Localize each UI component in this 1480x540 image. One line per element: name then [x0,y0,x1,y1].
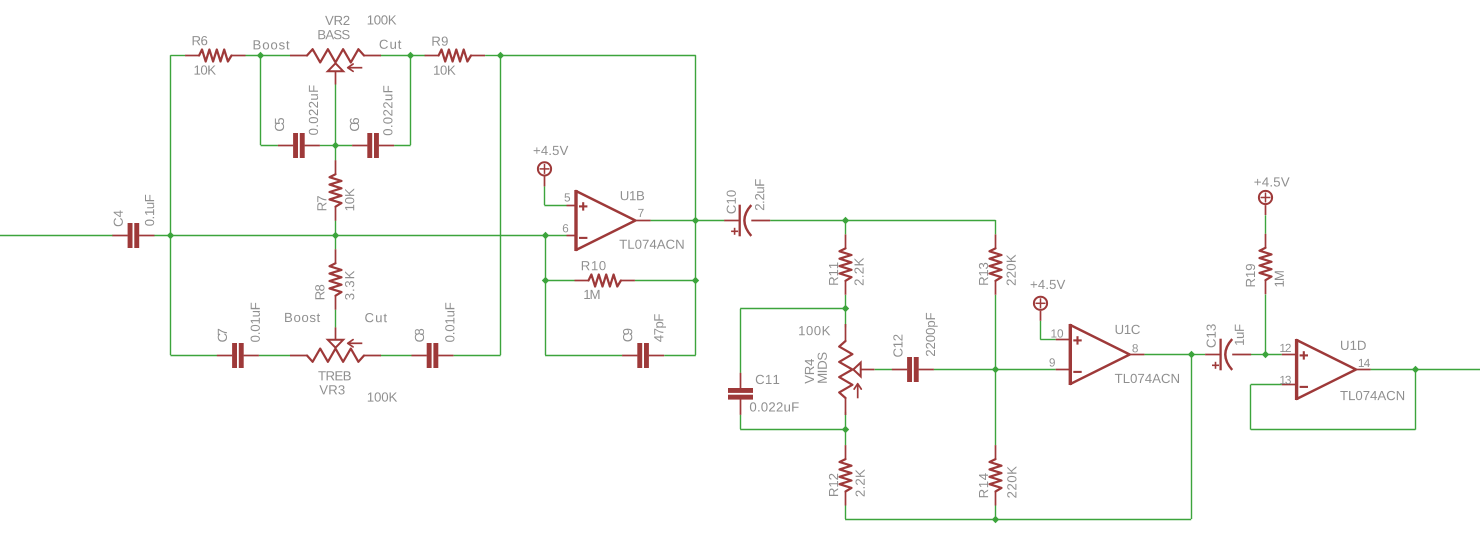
label BASS [318,30,349,39]
pin 5 [565,193,571,201]
wire R7 to main node [335,221,337,236]
capacitor C9 [622,343,664,368]
resistor R8 [330,249,342,309]
value 100K VR2 [368,15,397,24]
value 10K R6 [195,65,216,74]
label MIDS [818,353,827,383]
label R14 [979,473,988,497]
wire top line corner to R6 [171,55,186,57]
wire C5 line left [261,145,278,147]
wire left vertical up [170,55,172,235]
wire pin6 stub [567,235,577,237]
wire R11 bottom to junction [845,295,847,309]
value 2.2K R11 [854,258,863,285]
resistor R13 [990,234,1002,294]
value 3.3K R8 [345,271,354,300]
potentiometer VR3 [290,327,381,361]
value 2.2K R12 [856,469,865,496]
label VR2 [325,16,349,25]
wire R6 to Boost junction [246,55,291,57]
resistor R7 [330,160,342,220]
wire C5 to center junction [320,145,335,147]
wire C9 line left [545,355,622,357]
junction R14-bus [992,516,999,523]
node Cut top [380,40,402,49]
label R13 [979,263,988,285]
node Boost top [254,40,290,49]
resistor R14 [990,445,1002,505]
value 0.022uF C6 [383,86,392,136]
value 220K R13 [1007,255,1016,286]
op-amp U1B [576,190,635,251]
label C6 [350,118,359,131]
wire R13 bottom to junction [995,295,997,370]
label R10 [582,261,606,270]
label +4.5V U1B [534,146,569,155]
junction Cut [407,52,414,59]
resistor R10 [575,275,635,287]
op-amp U1D [1297,339,1356,400]
wire pin9 stub [1056,369,1071,371]
value 2.2uF C10 [755,179,764,210]
label R9 [432,37,447,46]
value 100K VR3 [368,392,397,401]
wire supply R19 down [1265,215,1267,234]
label TL074ACN U1D [1340,391,1404,400]
label C12 [893,335,902,357]
junction C13-R19 [1262,351,1269,358]
value 1M R19 [1275,271,1284,286]
wire C11 loop left lower [740,415,742,430]
label C10 [727,190,736,213]
wire VR4 bottom [845,412,847,429]
wire VR2 right to Cut junction [380,55,425,57]
wire VR4 top [845,309,847,328]
wire mid junction to R13 corner [845,220,995,222]
wire pin14 out stub [1356,369,1371,371]
node Boost bottom [285,313,320,322]
wire R14 bottom [995,506,997,520]
junction R7-R8 main [332,232,339,239]
node Cut bottom [365,313,387,322]
potentiometer VR2 [290,49,381,84]
wire C6 to Cut corner [394,145,411,147]
junction pin6 node [542,232,549,239]
wire C7 to VR3 [259,355,290,357]
label U1C [1116,325,1140,334]
wire out junction to C10 [696,220,725,222]
wire R19 bottom to junction [1265,294,1267,354]
wire C8 to corner [454,355,501,357]
label VR4 [805,359,814,384]
value 220K R14 [1007,466,1016,498]
capacitor C8 [412,343,454,368]
label C9 [623,329,632,342]
capacitor C11 [728,373,753,415]
resistor R11 [840,234,852,294]
junction U1D output [1412,366,1419,373]
value 1M R10 [584,290,599,299]
wire pin13 feedback stub [1251,384,1282,386]
wire pin5 stub [567,205,577,207]
pin 9 [1050,358,1055,366]
wire R10 right vertical to C9 [695,281,697,355]
wire C10 to mid junction [770,220,845,222]
wire supply U1C to pin10 [1040,339,1055,341]
junction C12-R13-R14 [992,366,999,373]
resistor R6 [185,50,245,62]
label TL074ACN U1C [1115,374,1179,383]
value 100K VR4 [799,326,830,335]
label R12 [829,474,838,496]
wire VR2 wiper stem [335,85,337,146]
wire VR4 wiper to C12 [875,369,892,371]
junction C10-R11 [842,217,849,224]
wire junction to R7 [335,145,337,160]
wire pin10 stub [1056,339,1071,341]
wire C11 loop top [740,308,845,310]
value 0.1uF [145,195,154,226]
value 1uF C13 [1235,325,1244,345]
wire pin6 vertical to R10 [545,235,547,281]
value 0.022uF C11 [750,402,799,411]
label R19 [1246,264,1255,286]
wire pin7 out stub [636,220,651,222]
wire top-right junction to corner [501,55,696,57]
wire R12 bottom [845,506,847,520]
wire pin8 out stub [1130,354,1145,356]
wire R14 top [995,370,997,446]
wire supply U1C down [1040,321,1042,340]
label TL074ACN U1B [620,240,684,249]
wire U1C out to junction [1144,354,1191,356]
capacitor C5 [278,133,320,158]
value 0.01uF C8 [445,303,454,342]
wire U1D out to junction [1371,369,1416,371]
wire R10 left lead [545,280,574,282]
wire VR3 to C8 [380,355,411,357]
wire R12 top [845,429,847,445]
wire top net vertical right [695,55,697,220]
wire C9 line right [664,355,696,357]
label R6 [193,36,208,45]
value 2200pF C12 [926,313,938,356]
label C4 [114,210,123,226]
junction VR4-R12 [842,426,849,433]
supply +4.5V R19 [1259,191,1272,215]
value 10K R7 [345,188,354,210]
wire R19 junction to pin12 stub [1266,354,1282,356]
value 47pF C9 [654,314,666,342]
wire output net right [1416,369,1480,371]
pin 14 [1359,359,1370,367]
wire bus vertical up to U1C out [1191,355,1193,519]
capacitor C6 [352,133,394,158]
wire R13 top [995,220,997,234]
wire C11 loop bottom [740,429,845,431]
junction R11-VR4 [842,305,849,312]
label +4.5V R19 [1254,177,1289,186]
wire Cut vertical down [410,55,412,145]
wire junction to C13 [1191,354,1205,356]
supply +4.5V U1C [1034,297,1047,321]
wire pin12 stub [1282,354,1297,356]
wire node to pin6 stub [545,235,566,237]
wire supply U1B down [544,187,546,206]
value 0.022uF C5 [309,85,318,135]
pin 8 [1132,344,1138,352]
wire ground bus bottom [845,519,1191,521]
wire feedback bottom [1251,429,1416,431]
label R7 [317,196,326,210]
label C11 [756,375,779,384]
label U1B [621,191,644,200]
capacitor C7 [217,343,259,368]
capacitor C13 [1205,339,1251,371]
label U1D [1341,341,1366,350]
junction Boost [257,52,264,59]
supply +4.5V U1B [538,162,551,186]
wire main node to R8 [335,235,337,249]
label R11 [829,263,838,285]
wire feedback up to pin13 [1250,385,1252,430]
pin 10 [1051,329,1063,337]
wire R10 right lead [635,280,696,282]
pin 6 [563,224,568,232]
capacitor C12 [892,357,934,382]
junction input node [167,232,174,239]
label +4.5V U1C [1031,280,1066,289]
wire C11 loop left upper [740,309,742,373]
wire center junction to C6 [335,145,352,147]
capacitor C4 [112,223,154,248]
wire R11 top [845,220,847,234]
potentiometer VR4 [839,324,874,415]
label VR3 [319,385,344,394]
wire C13 to R19 junction [1251,354,1266,356]
wire U1B out to junction [651,220,696,222]
wire R7 node to U1B inverting node [335,235,545,237]
pin 13 [1280,376,1291,384]
wire right-left vertical Cut net [500,55,502,355]
wire supply U1B to pin5 [544,205,566,207]
resistor R12 [840,445,852,505]
op-amp U1C [1070,324,1129,385]
label R8 [315,285,324,299]
junction R10 left [542,277,549,284]
junction U1C output [1188,351,1195,358]
wire input junction to R7 node [171,235,336,237]
wire R10 left vertical to C9 [545,281,547,355]
pin 12 [1280,344,1291,352]
label C8 [415,329,424,342]
wire C12 to node junction [934,369,996,371]
resistor R9 [425,50,485,62]
junction top-right [497,52,504,59]
pin 7 [638,209,643,217]
label C5 [275,118,284,131]
value 0.01uF C7 [251,303,260,342]
wire left vertical down [170,235,172,355]
wire C4 to input junction [154,235,171,237]
wire bottom-left line to C7 [171,355,218,357]
resistor R19 [1260,234,1272,294]
wire feedback down [1415,370,1417,430]
label TREB [318,371,351,380]
junction C5-C6-wiper [332,142,339,149]
wire out vertical to R10 [695,220,697,281]
wire pin13 stub [1282,384,1297,386]
wire R8 to VR3 wiper [335,310,337,328]
label C7 [218,329,227,342]
wire R9 to top-right junction [485,55,501,57]
junction R10 right [692,277,699,284]
wire node to pin9 stub [996,369,1056,371]
value 10K R9 [434,66,456,75]
wire Boost vertical down [260,55,262,145]
label C13 [1207,324,1216,347]
junction U1B output [692,217,699,224]
wire input net left [0,235,113,237]
capacitor C10 [724,205,770,237]
